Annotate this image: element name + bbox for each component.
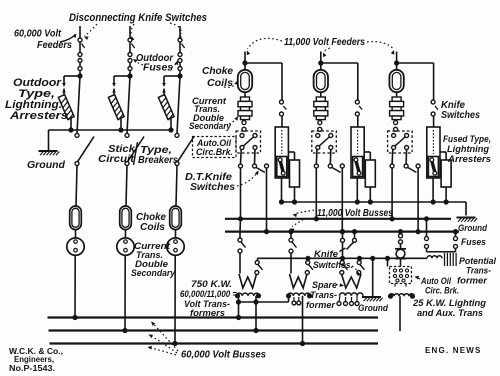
svg-text:Circ. Brk.: Circ. Brk. <box>425 286 459 297</box>
svg-text:Breakers: Breakers <box>138 155 178 166</box>
svg-text:Secondary: Secondary <box>189 121 232 131</box>
svg-text:Engineers,: Engineers, <box>14 355 54 364</box>
svg-text:Choke: Choke <box>202 65 233 77</box>
svg-text:former: former <box>306 300 336 311</box>
svg-text:Arresters: Arresters <box>9 110 68 122</box>
svg-text:No.P-1543.: No.P-1543. <box>9 364 55 373</box>
svg-text:Circ.Brk.: Circ.Brk. <box>196 147 233 157</box>
svg-text:60,000 Volt: 60,000 Volt <box>14 29 62 40</box>
svg-text:11,000 Volt Busses: 11,000 Volt Busses <box>317 208 393 219</box>
svg-text:Coils: Coils <box>140 222 165 233</box>
svg-text:Coils: Coils <box>207 77 233 89</box>
svg-text:Ground: Ground <box>458 223 487 234</box>
svg-text:Secondary: Secondary <box>131 268 176 278</box>
svg-text:Knife: Knife <box>314 249 339 260</box>
svg-text:Disconnecting Knife Switches: Disconnecting Knife Switches <box>69 12 207 24</box>
svg-text:former: former <box>457 276 488 287</box>
svg-text:Arresters: Arresters <box>447 154 491 165</box>
svg-text:formers: formers <box>190 308 225 319</box>
svg-text:Switches.: Switches. <box>313 260 353 271</box>
svg-text:11,000 Volt Feeders: 11,000 Volt Feeders <box>284 36 365 48</box>
svg-text:Feeders: Feeders <box>37 40 72 51</box>
svg-text:ENG. NEWS: ENG. NEWS <box>425 346 482 355</box>
svg-text:Fuses: Fuses <box>461 237 486 248</box>
svg-text:Circuit: Circuit <box>98 154 135 165</box>
svg-text:60,000 Volt Busses: 60,000 Volt Busses <box>181 349 266 361</box>
svg-text:and Aux. Trans: and Aux. Trans <box>417 308 483 319</box>
svg-text:Switches: Switches <box>190 181 235 193</box>
svg-text:Fuses: Fuses <box>143 63 173 74</box>
svg-text:Switches: Switches <box>441 110 480 121</box>
svg-text:Ground: Ground <box>358 303 388 314</box>
svg-text:Ground: Ground <box>27 159 66 171</box>
